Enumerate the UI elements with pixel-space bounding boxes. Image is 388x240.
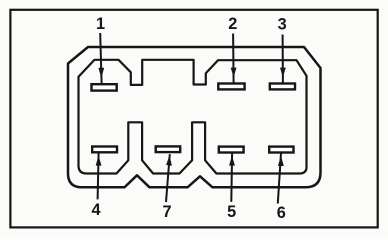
terminal pin 1	[92, 84, 117, 90]
svg-text:5: 5	[227, 203, 236, 221]
terminal pin 7	[156, 146, 181, 152]
arrow to pin 3	[280, 35, 286, 83]
terminal pin 4	[92, 147, 117, 153]
svg-text:4: 4	[91, 201, 100, 219]
svg-text:3: 3	[278, 16, 287, 34]
svg-text:7: 7	[162, 203, 171, 221]
svg-text:2: 2	[228, 15, 237, 33]
arrow to pin 1	[98, 33, 104, 84]
connector inner cavity outline	[79, 60, 307, 174]
svg-text:6: 6	[277, 204, 286, 222]
terminal pin 3	[270, 84, 295, 90]
arrow to pin 7	[166, 154, 172, 202]
arrow to pin 2	[231, 34, 237, 83]
arrow to pin 6	[278, 153, 284, 203]
arrow to pin 5	[229, 153, 235, 202]
terminal pin 6	[269, 147, 293, 153]
svg-text:1: 1	[96, 15, 105, 33]
connector outer shell outline	[68, 47, 321, 187]
arrow to pin 4	[96, 153, 102, 199]
terminal pin 2	[218, 84, 244, 90]
terminal pin 5	[219, 147, 244, 153]
